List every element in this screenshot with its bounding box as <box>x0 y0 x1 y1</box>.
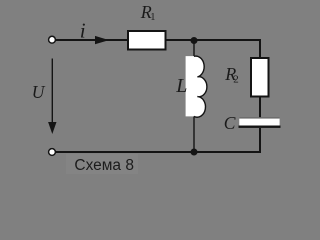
wire: top wire right segment (node A to top-right corner) <box>194 39 261 41</box>
node A (top junction dot) <box>191 37 198 44</box>
wire: inductor branch upper segment (node A down to coil) <box>193 40 195 57</box>
resistor R1 <box>128 31 166 50</box>
svg-text:1: 1 <box>150 12 155 23</box>
inductor L (coil arcs) <box>194 56 207 117</box>
svg-text:i: i <box>80 19 86 43</box>
svg-text:U: U <box>32 82 46 102</box>
wire: right branch middle segment (R2 to capacitor C) <box>259 97 261 118</box>
resistor R2 <box>251 58 269 97</box>
svg-text:L: L <box>175 75 187 97</box>
voltage arrow U (shaft) <box>51 59 53 125</box>
wire: bottom wire (bottom terminal to bottom-right corner) <box>56 151 261 153</box>
wire: right branch upper segment (corner to R2) <box>259 39 261 57</box>
inductor L (white body) <box>186 56 207 117</box>
node B (bottom junction dot) <box>191 149 198 156</box>
caption background band <box>66 154 138 174</box>
capacitor C (bottom plate) <box>239 126 281 128</box>
wire: inductor branch lower segment (coil down to node B) <box>193 116 195 152</box>
voltage arrow U (head) <box>48 122 56 134</box>
capacitor C (white gap) <box>239 119 279 126</box>
terminal: bottom-left input terminal <box>49 149 56 156</box>
svg-text:2: 2 <box>233 74 239 86</box>
terminal: top-left input terminal <box>49 36 56 43</box>
svg-text:C: C <box>224 113 236 133</box>
current arrow i (head) <box>95 36 109 44</box>
svg-text:Схема 8: Схема 8 <box>74 157 134 174</box>
wire: right branch lower segment (capacitor C to bottom wire) <box>259 128 261 153</box>
wire: top wire middle segment (R1 to node A) <box>166 39 194 41</box>
capacitor C (top plate, light line) <box>240 117 280 119</box>
wire: top wire left segment (terminal to R1) <box>55 39 127 41</box>
